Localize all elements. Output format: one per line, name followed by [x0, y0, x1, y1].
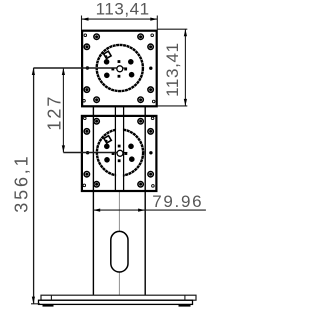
dim 113.41 top: dimension line	[82, 18, 158, 20]
base foot left	[43, 304, 54, 306]
dim 356.1: arrows	[32, 68, 35, 75]
base upper strip	[41, 295, 196, 300]
flange plate P1 outline	[82, 31, 157, 107]
svg-text:356,1: 356,1	[12, 156, 32, 212]
channel slot fill	[116, 108, 123, 191]
dim 113.41 top: extension lines	[81, 16, 83, 31]
svg-text:79.96: 79.96	[152, 192, 201, 211]
plate P1 diamond mark	[103, 50, 112, 59]
dim 79.96: arrows	[93, 209, 100, 212]
column left edge wire	[92, 106, 94, 295]
plate P1 hole pattern	[83, 34, 155, 103]
dim 79.96: dimension line	[93, 209, 206, 211]
dim 113.41 right: extension lines	[158, 28, 188, 30]
dim 356.1: extension line bottom	[31, 303, 40, 305]
flange plate P1 bolt ring	[97, 45, 143, 91]
dim 127: dimension line	[62, 68, 64, 152]
svg-text:127: 127	[44, 97, 64, 131]
plate P1 bolt holes	[104, 59, 135, 78]
svg-text:113,41: 113,41	[163, 43, 182, 97]
plate P1 center hub	[117, 66, 123, 72]
plate P2 bolt holes	[104, 144, 135, 163]
column right edge wire	[144, 106, 146, 295]
dim 356.1: dimension line	[33, 68, 35, 304]
dim 127: arrows	[62, 68, 65, 75]
flange plate P2 bolt ring	[97, 129, 143, 175]
base step line left	[50, 295, 52, 300]
column slot obround	[111, 231, 128, 272]
dim 113.41 right: arrows	[184, 29, 187, 36]
base foot right	[179, 304, 191, 306]
dim 113.41 top: arrows	[82, 18, 89, 21]
svg-text:113,41: 113,41	[96, 0, 149, 18]
plate P1 center squares	[111, 60, 127, 78]
plate P2 diamond mark	[103, 135, 112, 144]
channel left line	[114, 106, 116, 191]
flange plate P2 outline	[82, 116, 156, 191]
dim 356.1: extension line for P2 center	[63, 152, 117, 154]
base step line right	[184, 295, 186, 300]
dim 113.41 right: dimension line	[184, 29, 186, 106]
base lower strip	[39, 300, 193, 304]
plate P2 center hub	[117, 150, 123, 156]
dim 356.1: extension line top / centerline P1	[33, 67, 117, 69]
plate P2 center squares	[112, 145, 128, 163]
column centerline	[118, 191, 120, 295]
plate P2 hole pattern	[83, 117, 154, 187]
channel right line	[123, 106, 125, 191]
